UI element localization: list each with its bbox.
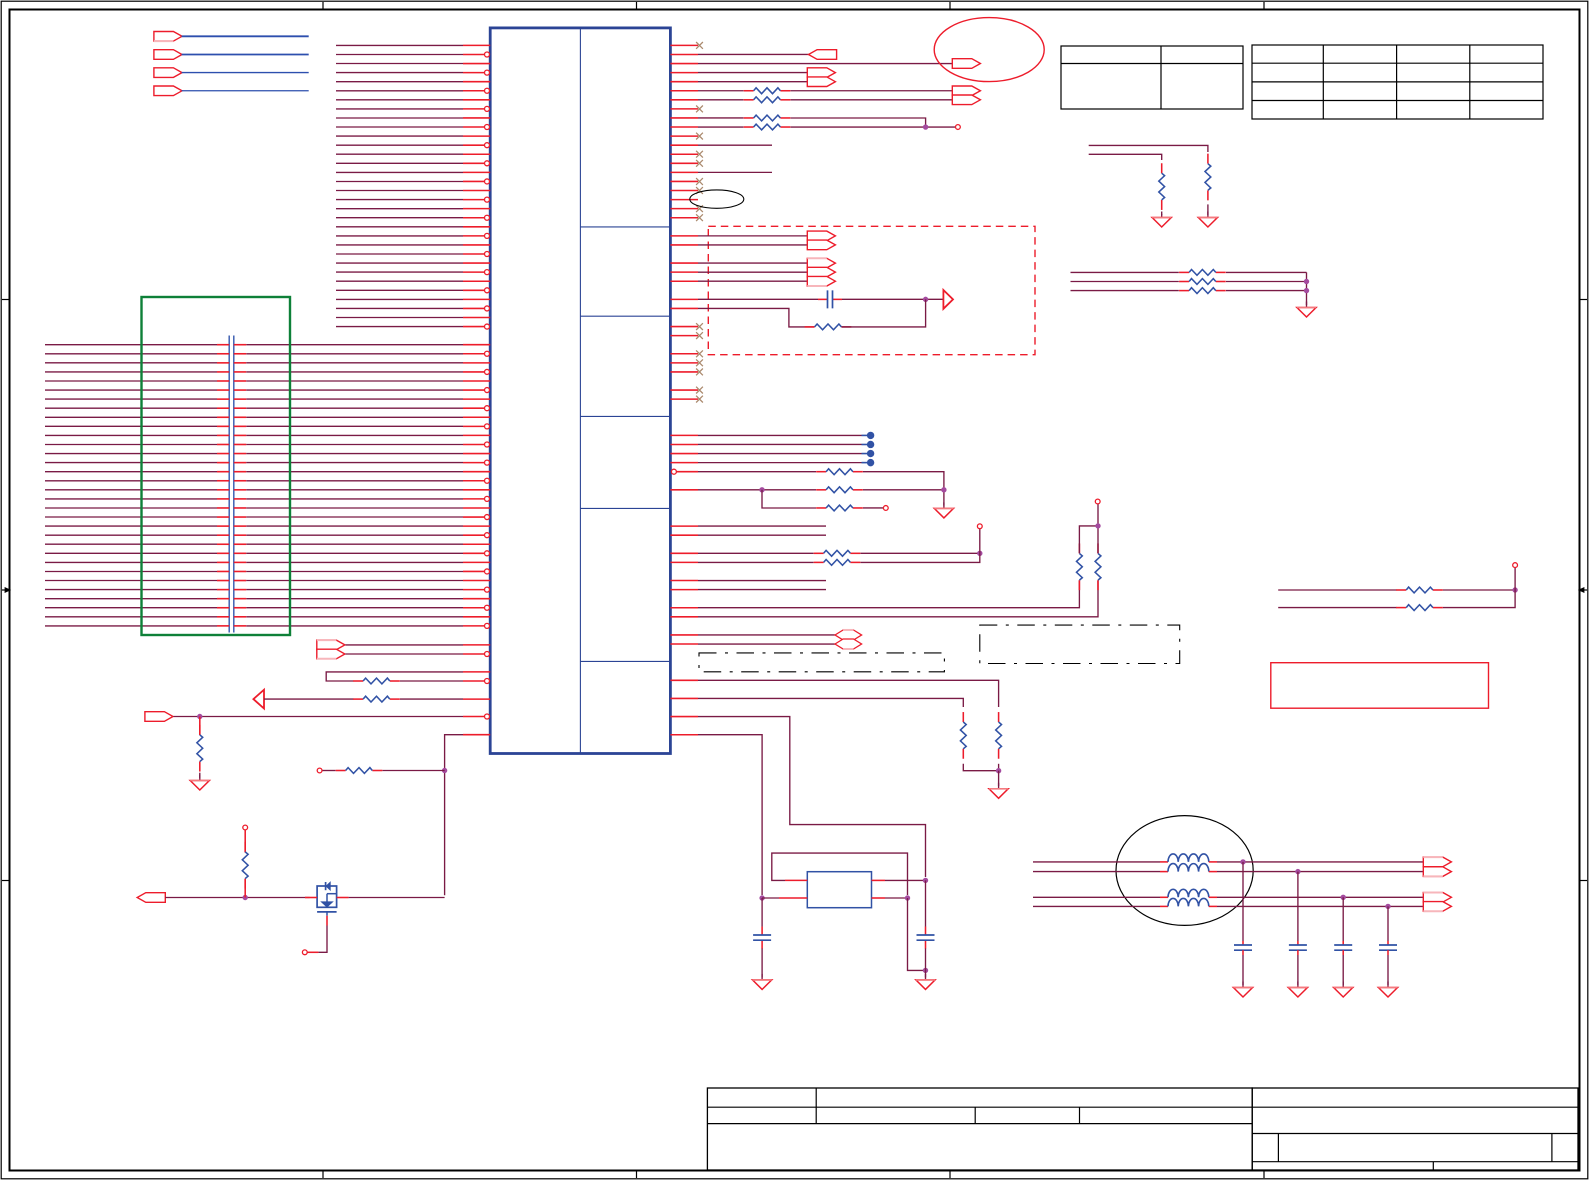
off-sheet connector OS2 <box>835 639 862 649</box>
U1 left pin (plain) <box>463 698 490 700</box>
resistor R17 <box>199 725 201 735</box>
net marker (blue dot) <box>862 453 868 455</box>
wire to junction <box>1443 589 1515 591</box>
wire to port <box>698 262 807 264</box>
wire segment <box>791 99 953 101</box>
wire segment <box>842 298 943 300</box>
wire net <box>1033 861 1160 863</box>
common node wire <box>1306 272 1308 305</box>
U1 right pin row n46 <box>670 462 698 464</box>
junction <box>442 768 446 772</box>
U1 right pin row n9 <box>670 126 698 128</box>
ferrite bead FB1 <box>1160 861 1168 863</box>
U1 right pin row n57 <box>670 561 698 563</box>
U1 right pin row n14 <box>670 171 698 173</box>
port P13 <box>807 258 835 268</box>
wire to ground <box>1207 204 1209 215</box>
junction <box>198 714 202 718</box>
resistor R23 <box>1179 281 1189 283</box>
wire to net marker <box>698 462 862 464</box>
ground <box>1306 302 1308 308</box>
wire to U1 <box>345 644 463 646</box>
resistor R14 <box>962 712 964 722</box>
highlight ellipse (red) <box>934 18 1044 82</box>
transistor Q1 (P-MOSFET load switch) <box>317 886 337 907</box>
wire with bend down <box>698 698 963 707</box>
wire to port <box>698 280 807 282</box>
dash-dot group box A <box>699 653 944 672</box>
resistor R18 <box>336 770 346 772</box>
wire to test point <box>979 529 981 554</box>
capacitor C5 <box>1297 872 1299 941</box>
wire to ground <box>761 948 763 977</box>
U1 right no-connect pins <box>670 44 698 46</box>
wire net <box>1278 607 1396 609</box>
wire segment <box>698 471 816 473</box>
wire with bend up <box>1443 590 1515 608</box>
wire segment <box>1226 281 1307 283</box>
Q1 drain pin <box>337 897 349 899</box>
wire to port P5 <box>698 53 809 55</box>
capacitor C7 <box>1387 906 1389 941</box>
junction <box>1096 524 1100 528</box>
resistor R10 <box>814 561 824 563</box>
wire to ground junction <box>998 764 1000 771</box>
wire to net marker <box>698 434 862 436</box>
port P5 (left-facing) <box>809 50 837 60</box>
wire stub <box>698 171 772 173</box>
wire with bend up <box>861 553 980 562</box>
wire <box>925 948 927 970</box>
junction <box>996 769 1000 773</box>
resistor R25 <box>1396 589 1406 591</box>
U1 right pin row n26 <box>670 280 698 282</box>
branch wire <box>383 770 445 772</box>
Q1 gate wire <box>326 912 328 916</box>
wire to ground <box>1297 955 1299 985</box>
test point circle <box>883 506 888 511</box>
wire segment <box>174 716 464 718</box>
gate pin red <box>308 951 319 953</box>
U1 right pin row n60 <box>670 589 698 591</box>
U2 pin in1 <box>785 879 807 881</box>
junction <box>1241 860 1245 864</box>
wire with bend <box>698 308 815 327</box>
U1 left pin (bubble) <box>463 680 484 682</box>
ferrite bead FB3 <box>1160 896 1168 898</box>
U1 left pin (bubble) <box>463 716 484 718</box>
port P18 <box>145 712 173 722</box>
wire to test point <box>863 507 883 509</box>
title block left section <box>707 1088 1252 1170</box>
IC U1 (main controller, body with internal sections) <box>490 28 670 754</box>
resistor R7 <box>816 489 826 491</box>
wire net <box>1033 896 1160 898</box>
U1 right pin row n66 <box>670 643 698 645</box>
U1 right pin row n72 <box>670 697 698 699</box>
U1 right pin row n5 <box>670 90 698 92</box>
resistor R16 <box>353 698 363 700</box>
wire to bottom node <box>698 735 762 895</box>
junction <box>1296 869 1300 873</box>
wire to net marker <box>698 453 862 455</box>
table: revision history (4x4) <box>1252 45 1543 119</box>
resistor R2 <box>744 99 754 101</box>
wire segment <box>400 680 463 682</box>
port P23 <box>1423 902 1451 912</box>
wire bus: connector J1 to U1 lines <box>45 345 463 626</box>
wire U2 in2 node <box>762 897 779 899</box>
wire stub <box>698 580 826 582</box>
wire to port <box>1217 896 1423 898</box>
wire stub <box>698 534 826 536</box>
test point circle <box>1095 499 1100 504</box>
ground <box>1242 982 1244 988</box>
wire segment <box>698 552 814 554</box>
junction <box>923 297 927 301</box>
U2 pin in2 <box>779 897 807 899</box>
U1 right pin row n44 <box>670 443 698 445</box>
wire stub <box>698 525 826 527</box>
wire net <box>1033 871 1160 873</box>
wire segment <box>1079 526 1098 553</box>
ground <box>1342 982 1344 988</box>
junction <box>905 896 909 900</box>
wire segment <box>244 879 246 898</box>
resistor R5 <box>805 326 815 328</box>
wire to ground <box>925 970 927 977</box>
port P19 (left-facing) <box>137 893 165 903</box>
port P4 (input, top-left) <box>154 86 182 96</box>
junction <box>760 896 764 900</box>
wire to junction <box>791 118 926 127</box>
U1 right pin row n21 <box>670 235 698 237</box>
net marker (blue dot) <box>862 462 868 464</box>
wire net from P3 <box>182 72 309 74</box>
junction <box>1513 588 1517 592</box>
U1 right pin row n17 <box>670 199 698 201</box>
ground <box>1387 982 1389 988</box>
wire to junction <box>861 552 980 554</box>
wire segment <box>1226 290 1307 292</box>
wire net <box>1071 290 1179 292</box>
wire net from P2 <box>182 54 309 56</box>
wire out2 to ground node <box>885 897 908 899</box>
U1 left pin (plain) <box>463 644 490 646</box>
U1 right pin row n49 <box>670 489 698 491</box>
port P20 <box>1423 857 1451 867</box>
U1 right pin row n45 <box>670 453 698 455</box>
net marker (blue dot) <box>862 443 868 445</box>
test point circle <box>317 768 322 773</box>
wire to ground <box>998 771 1000 786</box>
resistor R22 <box>1179 271 1189 273</box>
wire segment <box>400 698 463 700</box>
U1 right pin row n2 <box>670 63 698 65</box>
wire to ground <box>1342 955 1344 985</box>
ground <box>1161 212 1163 218</box>
test point circle <box>956 125 961 130</box>
wire net <box>1278 589 1396 591</box>
wire to off-sheet connector <box>698 643 835 645</box>
wire segment <box>863 489 944 491</box>
no-connect X marks <box>696 42 703 49</box>
table: title block note (2x2) <box>1061 46 1243 109</box>
port P1 (input, top-left) <box>154 32 182 42</box>
port P3 (input, top-left) <box>154 68 182 78</box>
off-sheet connector OS1 <box>835 630 862 640</box>
junction <box>1386 904 1390 908</box>
net marker (blue dot) <box>862 434 868 436</box>
junction <box>978 551 982 555</box>
U2 pin out1 <box>872 879 886 881</box>
U1 right pin row n24 <box>670 262 698 264</box>
port P21 <box>1423 867 1451 877</box>
resistor R24 <box>1179 290 1189 292</box>
test point circle <box>243 825 248 830</box>
clock symbol (open triangle, left) <box>253 690 264 709</box>
wire to U1 <box>345 653 463 655</box>
left bypass path <box>761 898 763 927</box>
junction <box>923 968 927 972</box>
wire to common node <box>963 764 998 771</box>
test point circle <box>302 950 307 955</box>
Q1 source pin <box>305 897 317 899</box>
junction <box>1304 288 1308 292</box>
port P9 <box>952 86 980 96</box>
port P12 <box>807 240 835 250</box>
ground <box>1207 212 1209 218</box>
U1 left pin (plain) <box>463 671 490 673</box>
port P15 <box>807 276 835 286</box>
U1 right pin row n62 <box>670 607 698 609</box>
highlight ellipse (black, filters) <box>1116 816 1253 926</box>
capacitor C1 (series) <box>818 298 828 300</box>
red annotation box <box>1271 663 1489 709</box>
wire to power switch rail <box>445 735 463 896</box>
resistor R19 <box>244 842 246 852</box>
wire stub <box>698 589 826 591</box>
wire segment <box>698 489 816 491</box>
wire net from P4 <box>182 90 309 92</box>
title block right section <box>1252 1088 1578 1170</box>
resistor R6 <box>816 471 826 473</box>
resistor R20 <box>1161 163 1163 173</box>
wire to port <box>1217 871 1423 873</box>
wire segment <box>698 99 744 101</box>
connector J1 body (blue columns) <box>228 336 230 633</box>
wire net <box>1071 281 1179 283</box>
pulldown wire <box>199 717 201 736</box>
wire net <box>1071 271 1179 273</box>
wire net from P1 <box>182 35 309 37</box>
connector J1 outline (green) <box>142 297 291 635</box>
wire to ground rail <box>863 472 944 506</box>
wire stub <box>698 144 772 146</box>
U1 right pin row n65 <box>670 634 698 636</box>
wire segment <box>1226 271 1307 273</box>
connector J1 pins (red stubs) <box>217 344 229 346</box>
wire bus: upper-left address/data lines <box>336 45 463 326</box>
ground <box>943 502 945 508</box>
feedback wire over U2 <box>772 853 908 895</box>
ground <box>925 974 927 980</box>
port P11 <box>807 231 835 241</box>
U1 right pin row n47 (bubble) <box>671 469 676 474</box>
U1 right pin row n59 <box>670 580 698 582</box>
resistor R11 <box>1078 543 1080 553</box>
U1 right pin row n63 <box>670 616 698 618</box>
port P2 (input, top-left) <box>154 50 182 60</box>
regulator U2 (body) <box>807 872 871 908</box>
U1 right pin row n43 <box>670 434 698 436</box>
wire to ground <box>199 773 201 778</box>
ground <box>199 775 201 781</box>
test point circle <box>1513 563 1518 568</box>
U1 right pin row n54 <box>670 534 698 536</box>
junction <box>923 125 927 129</box>
port P17 <box>317 649 345 659</box>
wire to net marker <box>698 443 862 445</box>
net stub wires <box>1089 145 1208 160</box>
U1 right pin row n76 <box>670 734 698 736</box>
wire segment <box>698 90 744 92</box>
highlight ellipse (small, black) <box>690 190 744 208</box>
U1 right pin row n53 <box>670 525 698 527</box>
junction <box>923 878 927 882</box>
wire to off-sheet connector <box>698 634 835 636</box>
dash-dot group box B <box>980 625 1180 663</box>
wire to ground <box>1387 955 1389 985</box>
junction <box>1341 895 1345 899</box>
test point circle <box>977 524 982 529</box>
U1 right pin row n28 <box>670 298 698 300</box>
clock symbol (open triangle) <box>943 290 953 309</box>
wire segment <box>698 298 818 300</box>
junction <box>760 488 764 492</box>
ground <box>998 783 1000 789</box>
wire to regulator input <box>698 717 926 877</box>
U1 right pin row n4 <box>670 81 698 83</box>
wire to test point <box>322 770 336 772</box>
wire to ground <box>1161 214 1163 215</box>
wire with bend up <box>698 581 1079 608</box>
pullup wire <box>244 830 246 853</box>
rail wire <box>165 897 309 899</box>
wire to port <box>1217 861 1423 863</box>
input bypass path <box>925 880 927 926</box>
wire to ground <box>1242 955 1244 985</box>
resistor R15 <box>353 680 363 682</box>
wire segment <box>698 561 814 563</box>
resistor R12 <box>1097 543 1099 553</box>
U1 right pin row n11 <box>670 144 698 146</box>
U1 right pin row n29 <box>670 307 698 309</box>
ground <box>761 974 763 980</box>
resistor R4 <box>744 126 754 128</box>
U1 right pin row n3 <box>670 72 698 74</box>
U1 left pins rows 1-32 (bubble on alternate pins) <box>463 44 490 46</box>
wire to port P7 <box>698 72 807 74</box>
ferrite bead FB2 <box>1160 871 1168 873</box>
U1 right pin row n70 <box>670 679 698 681</box>
port P16 <box>317 640 345 650</box>
wire to port <box>698 271 807 273</box>
U1 right pin row n22 <box>670 244 698 246</box>
port P14 <box>807 267 835 277</box>
resistor R3 <box>744 117 754 119</box>
wire net <box>1033 905 1160 907</box>
capacitor C6 <box>1342 897 1344 941</box>
resistor R1 <box>744 90 754 92</box>
wire to port <box>698 244 807 246</box>
U1 right pin row n8 <box>670 117 698 119</box>
capacitor C3 <box>761 927 763 935</box>
junction <box>942 488 946 492</box>
dashed red group box <box>708 226 1035 354</box>
U1 right pin row n74 <box>670 716 698 718</box>
ground <box>1297 982 1299 988</box>
resistor R21 <box>1207 154 1209 164</box>
ground drop wire <box>908 898 926 970</box>
wire to test point <box>791 126 956 128</box>
wire to port <box>698 235 807 237</box>
resistor R9 <box>814 552 824 554</box>
port P10 <box>952 95 980 105</box>
capacitor C2 <box>925 927 927 935</box>
port P6 (inside highlight ellipse) <box>952 59 980 69</box>
capacitor C4 <box>1242 862 1244 941</box>
wire segment <box>791 90 953 92</box>
wire with bend down <box>698 680 999 707</box>
U1 right pin row n25 <box>670 271 698 273</box>
wire to port P8 <box>698 81 807 83</box>
wire segment <box>698 117 744 119</box>
resistor R13 <box>998 712 1000 722</box>
feedback wire <box>326 672 463 681</box>
U1 left pin (plain) <box>463 734 490 736</box>
wire segment <box>698 126 744 128</box>
wire to port P6 <box>698 63 952 65</box>
wire to test point <box>1097 504 1099 553</box>
port P22 <box>1423 893 1451 903</box>
ferrite bead FB4 <box>1160 905 1168 907</box>
junction <box>1304 279 1308 283</box>
resistor R8 <box>816 507 826 509</box>
wire to junction <box>842 299 926 327</box>
rail wire <box>349 897 445 899</box>
U1 left pin (bubble) <box>463 653 484 655</box>
wire segment <box>264 698 354 700</box>
wire out1 to input node <box>885 879 926 881</box>
branch wire down <box>762 490 816 508</box>
resistor R26 <box>1396 607 1406 609</box>
port P7 <box>807 68 835 78</box>
port P8 <box>807 77 835 87</box>
U2 pin out2 <box>872 897 886 899</box>
U1 right pin row n6 <box>670 99 698 101</box>
wire to test point <box>1514 568 1516 591</box>
U1 right pin row n56 <box>670 552 698 554</box>
wire to port <box>1217 905 1423 907</box>
junction <box>243 895 247 899</box>
wire with bend up <box>698 581 1098 617</box>
U1 right pin row n1 <box>670 53 698 55</box>
U1 left pins rows 33-64 (bubble on alternate pins) <box>463 344 490 346</box>
